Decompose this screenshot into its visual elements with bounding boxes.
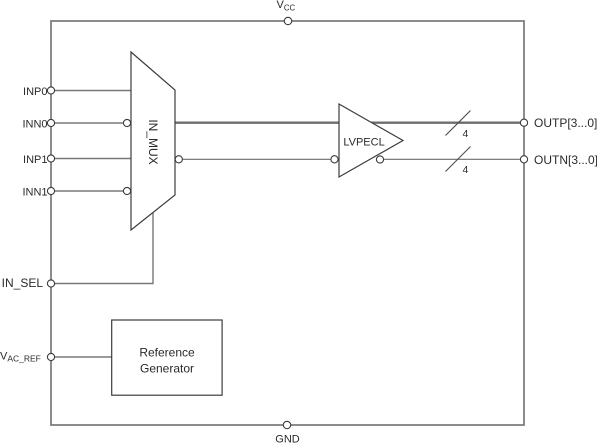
svg-text:OUTN[3...0]: OUTN[3...0] <box>534 153 597 167</box>
wire IN_SEL vertical to mux <box>152 212 154 285</box>
svg-text:OUTP[3...0]: OUTP[3...0] <box>534 116 597 130</box>
wire OUTN bus buffer-to-pin <box>384 158 521 160</box>
pin IN_SEL <box>47 280 54 287</box>
inversion bubble buffer negative output <box>376 156 383 163</box>
reference generator block <box>112 320 222 395</box>
wire INN0 <box>54 122 124 124</box>
svg-text:INN0: INN0 <box>22 118 47 130</box>
wire IN_SEL horizontal <box>54 283 153 285</box>
svg-text:IN_MUX: IN_MUX <box>146 119 160 164</box>
pin INP0 <box>47 87 54 94</box>
svg-text:INP0: INP0 <box>23 86 47 98</box>
svg-text:4: 4 <box>463 164 469 176</box>
wire VAC_REF <box>54 356 112 358</box>
buffer U2 LVPECL <box>339 104 403 177</box>
multiplexer U1 IN_MUX <box>131 52 175 230</box>
bus slash OUTN <box>446 147 471 172</box>
outer block border <box>51 21 524 425</box>
wire OUTN bus mux-to-buffer <box>183 158 331 160</box>
bus slash OUTP <box>446 111 471 136</box>
svg-text:INN1: INN1 <box>22 186 47 198</box>
inversion bubble INN1 at mux <box>123 187 130 194</box>
svg-text:INP1: INP1 <box>23 154 47 166</box>
svg-text:IN_SEL: IN_SEL <box>2 276 44 290</box>
pin INN1 <box>47 187 54 194</box>
svg-text:LVPECL: LVPECL <box>343 136 384 148</box>
pin GND <box>283 421 290 428</box>
svg-text:Generator: Generator <box>140 361 194 375</box>
wire INN1 <box>54 190 124 192</box>
wire OUTP bus (thick) <box>175 122 521 124</box>
svg-text:GND: GND <box>275 434 300 444</box>
pin VAC_REF <box>47 353 54 360</box>
svg-text:Reference: Reference <box>139 346 195 360</box>
pin INP1 <box>47 155 54 162</box>
inversion bubble buffer negative input <box>331 156 338 163</box>
inversion bubble INN0 at mux <box>123 119 130 126</box>
wire INP0 <box>54 90 131 92</box>
pin OUTP <box>520 119 527 126</box>
wire INP1 <box>54 158 131 160</box>
pin INN0 <box>47 119 54 126</box>
pin OUTN <box>520 156 527 163</box>
svg-text:4: 4 <box>463 128 469 140</box>
pin VCC <box>284 17 291 24</box>
inversion bubble mux negative output <box>175 156 182 163</box>
